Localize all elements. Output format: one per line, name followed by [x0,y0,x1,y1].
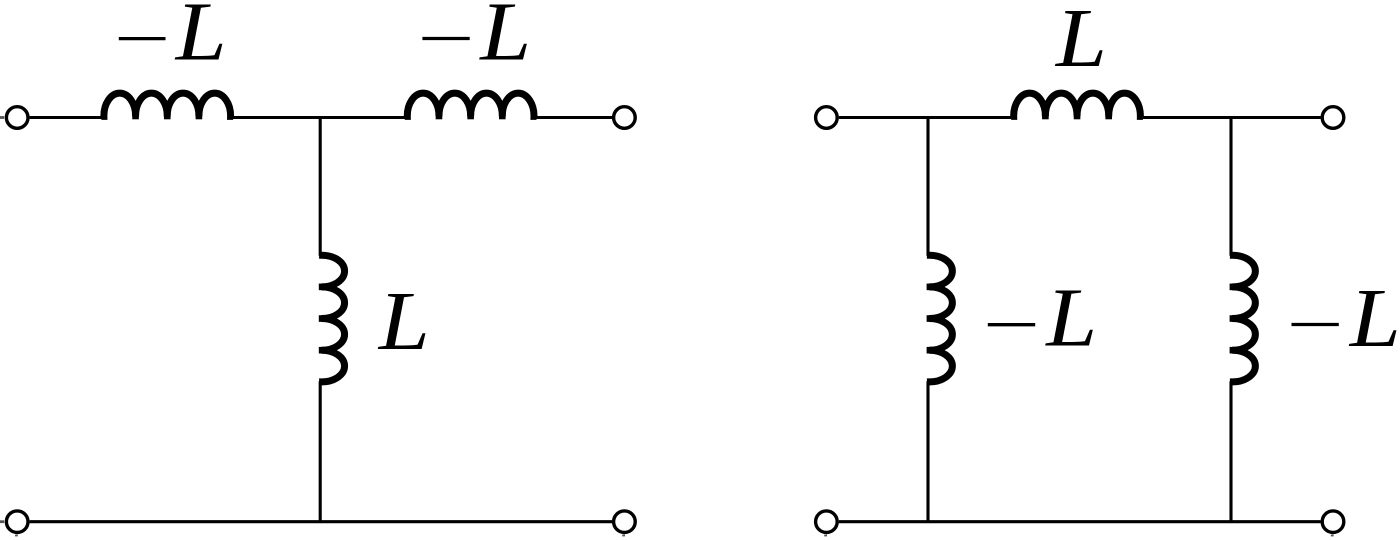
svg-text:L: L [1348,272,1400,365]
svg-text:L: L [377,276,430,369]
svg-text:L: L [1054,0,1107,85]
svg-text:L: L [1044,272,1097,365]
svg-text:L: L [478,0,531,79]
svg-text:L: L [174,0,227,79]
